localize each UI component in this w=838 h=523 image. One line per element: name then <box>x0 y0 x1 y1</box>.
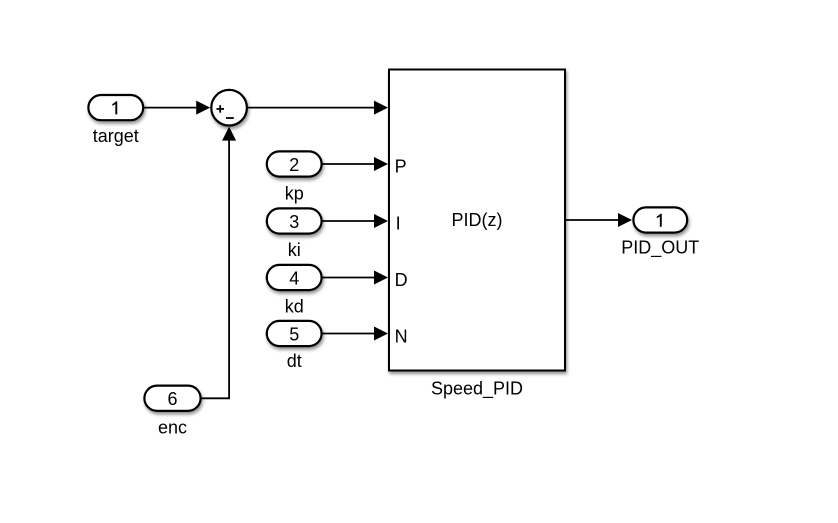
svg-text:2: 2 <box>289 155 299 175</box>
svg-text:4: 4 <box>289 268 299 288</box>
wire: inport1 to sum <box>144 101 210 115</box>
svg-text:3: 3 <box>289 212 299 232</box>
svg-text:enc: enc <box>158 418 187 438</box>
svg-text:PID(z): PID(z) <box>452 210 503 230</box>
outport 1 block <box>633 207 687 232</box>
inport 2 block <box>267 151 322 176</box>
inport 6 block <box>144 386 200 411</box>
svg-text:5: 5 <box>289 324 299 344</box>
svg-text:I: I <box>396 213 401 233</box>
wire: kp to P <box>323 157 389 171</box>
wire: dt to N <box>323 327 389 341</box>
inport 1 block <box>88 95 143 120</box>
svg-text:kp: kp <box>285 184 304 204</box>
svg-text:dt: dt <box>287 351 302 371</box>
subsystem block Speed_PID <box>389 70 565 371</box>
wire: kd to D <box>323 271 389 285</box>
wire: enc to sum minus <box>202 127 237 399</box>
svg-text:6: 6 <box>167 389 177 409</box>
svg-text:ki: ki <box>288 240 301 260</box>
svg-text:P: P <box>395 156 407 176</box>
svg-text:D: D <box>395 270 408 290</box>
svg-text:target: target <box>93 126 139 146</box>
svg-text:PID_OUT: PID_OUT <box>621 237 699 258</box>
svg-text:kd: kd <box>285 297 304 317</box>
wire: ki to I <box>323 214 389 228</box>
sum block <box>211 90 247 126</box>
inport 3 block <box>267 208 322 233</box>
inport 4 block <box>267 265 322 290</box>
wire: sum to Speed_PID in1 <box>248 101 388 115</box>
svg-text:N: N <box>395 326 408 346</box>
svg-text:Speed_PID: Speed_PID <box>431 379 523 400</box>
wire: Speed_PID out to outport <box>566 213 632 227</box>
inport 5 block <box>267 321 322 346</box>
